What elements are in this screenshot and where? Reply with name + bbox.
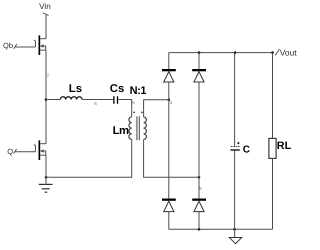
wire (118, 100, 132, 118)
svg-text:RL: RL (277, 140, 292, 152)
ground (earth, left) (39, 184, 53, 192)
svg-text:Qb: Qb (3, 41, 13, 50)
wire (top rail) (169, 52, 273, 54)
wire (C bottom lead) (234, 151, 236, 230)
svg-text:N:1: N:1 (130, 85, 147, 97)
wire (gate of Qb) (16, 46, 36, 48)
junction (233, 228, 236, 231)
wire (rail between MOSFETs) (45, 50, 47, 144)
wire (RL bottom lead) (272, 158, 274, 229)
transistor Q1 (Qb, upper MOSFET) (34, 35, 46, 55)
wire (right leg middle) (198, 82, 200, 199)
junction (45, 176, 48, 179)
wire (source to ground) (45, 155, 47, 184)
wire (ground lead right) (234, 229, 236, 237)
junction (198, 51, 201, 54)
wire (46, 99, 60, 101)
wire (bottom rail) (169, 228, 273, 230)
capacitor Cs (114, 96, 118, 104)
wire (82, 99, 113, 101)
svg-text:6: 6 (94, 101, 97, 106)
polarity dot secondary (141, 112, 143, 114)
resistor RL (269, 138, 276, 158)
node Qb (3, 41, 17, 50)
diode D4 (192, 199, 206, 212)
junction (234, 51, 237, 54)
svg-text:Cs: Cs (110, 83, 124, 95)
polarity dot primary (133, 112, 135, 114)
junction (45, 98, 48, 101)
wire (right leg top) (198, 53, 200, 69)
inductor Ls (60, 97, 82, 100)
wire (gate of Q2) (15, 151, 35, 153)
wire (left leg top) (168, 53, 170, 69)
svg-text:Lm: Lm (113, 125, 129, 137)
junction (198, 228, 201, 231)
wire (primary bottom) (46, 139, 132, 177)
svg-text:Vin: Vin (39, 2, 51, 11)
wire (left leg middle) (168, 82, 170, 199)
node Vout (275, 47, 297, 57)
transistor Q2 (lower MOSFET) (34, 140, 46, 160)
junction (271, 51, 274, 54)
svg-text:5: 5 (132, 100, 135, 105)
diode D2 (192, 69, 206, 82)
junction (198, 176, 201, 179)
svg-text:Ls: Ls (69, 83, 82, 95)
svg-text:3: 3 (170, 100, 173, 105)
transformer core (137, 116, 139, 140)
node Vin (39, 2, 51, 16)
svg-text:C: C (243, 144, 250, 155)
svg-text:Vout: Vout (280, 47, 297, 57)
wire (secondary top) (144, 100, 169, 117)
svg-text:2: 2 (47, 73, 50, 78)
node Q (7, 147, 16, 156)
wire (RL top lead) (272, 53, 274, 139)
svg-text:9: 9 (199, 186, 202, 191)
svg-text:Q: Q (7, 147, 13, 156)
diode D3 (162, 199, 176, 212)
capacitor C (231, 142, 240, 150)
wire (C top lead) (234, 53, 236, 147)
wire (45, 15, 47, 39)
transformer secondary winding (144, 117, 147, 139)
ground (output) (229, 238, 241, 244)
junction (168, 99, 171, 102)
diode D1 (162, 69, 176, 82)
wire (secondary bottom) (144, 139, 199, 177)
transformer T1 primary winding (Lm) (129, 117, 132, 139)
wire (left leg bottom) (168, 212, 170, 230)
wire (right leg bottom) (198, 212, 200, 230)
